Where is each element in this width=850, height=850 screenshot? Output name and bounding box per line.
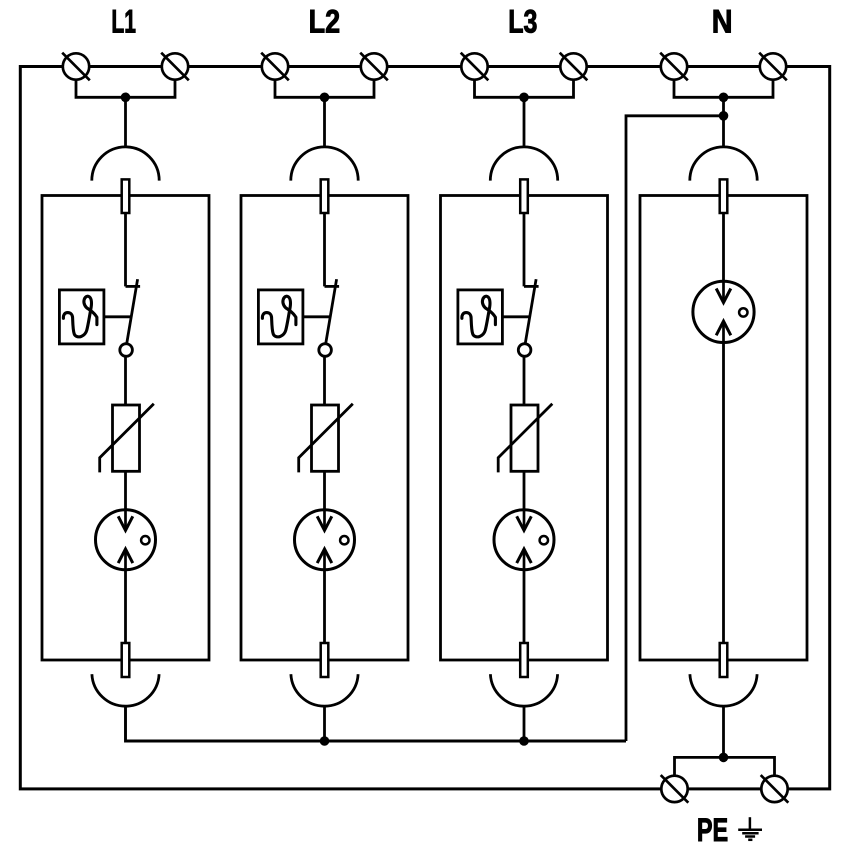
node L2 junction — [320, 93, 330, 103]
node L1 junction — [121, 93, 131, 103]
node N junction — [719, 93, 729, 103]
spark gap N wire in — [722, 281, 725, 303]
terminal L2 terminal left — [261, 53, 289, 81]
terminal blade L1 bottom — [122, 643, 130, 677]
plug-in contact L3 bottom — [490, 674, 557, 706]
svg-text:L3: L3 — [508, 4, 537, 40]
spark gap L2 body — [295, 510, 355, 570]
wire N spark gap out — [722, 321, 725, 343]
plug-in contact L2 bottom — [291, 674, 358, 706]
varistor L1 diagonal — [100, 404, 154, 473]
thermal release box L2 — [258, 290, 303, 344]
svg-text:N: N — [712, 4, 733, 40]
ground symbol bar 2 — [742, 832, 758, 835]
terminal PE right — [761, 775, 789, 803]
plug-in contact L1 top — [92, 147, 159, 181]
wire L2 bottom drop — [323, 706, 326, 742]
spark gap N top electrode — [716, 289, 731, 303]
wire bus riser to N — [626, 116, 724, 741]
ground symbol bar 4 — [748, 839, 752, 842]
node L2 bus junction — [320, 736, 330, 746]
terminal N terminal right — [759, 53, 787, 81]
wire N bottom drop — [722, 706, 725, 757]
wire L3 junction to plug contact — [523, 97, 526, 146]
terminal N terminal left — [660, 53, 688, 81]
disconnector L3 fixed contact — [524, 285, 539, 288]
wire thermal box to blade L1 — [104, 315, 131, 318]
wire L3 terminal bracket — [475, 79, 574, 98]
disconnector L2 pivot contact — [319, 344, 332, 357]
spark gap L1 wire in — [124, 509, 127, 530]
spark gap L3 bottom electrode — [517, 549, 532, 563]
wire L3 blade to disconnector — [523, 213, 526, 286]
spark gap L2 wire in — [323, 509, 326, 530]
wire L3 bottom drop — [523, 706, 526, 742]
wire L3 spark gap out — [523, 549, 526, 570]
wire thermal box to blade L2 — [303, 315, 330, 318]
wire L1 varistor to spark gap — [124, 471, 127, 530]
wire L1 spark gap to bottom blade — [124, 570, 127, 643]
terminal L3 terminal left — [461, 53, 489, 81]
spark gap L3 wire in — [523, 509, 526, 530]
ground symbol bar 1 — [738, 828, 762, 831]
wire L2 junction to plug contact — [323, 97, 326, 146]
disconnector L2 fixed contact — [325, 285, 340, 288]
node N riser junction — [719, 111, 729, 121]
varistor L2 body — [312, 405, 339, 471]
module enclosure L1 — [42, 196, 209, 661]
wire L1 spark gap out — [124, 549, 127, 570]
thermal release box L3 — [458, 290, 503, 344]
wire N spark gap to bottom blade — [722, 343, 725, 644]
terminal L2 terminal right — [360, 53, 388, 81]
wire L1 terminal bracket — [76, 79, 175, 98]
spark gap L2 trigger dot — [340, 536, 348, 544]
node L3 bus junction — [519, 736, 529, 746]
svg-text:PE: PE — [697, 812, 728, 848]
terminal blade N bottom — [720, 643, 728, 677]
spark gap L2 top electrode — [317, 516, 332, 530]
thermal release symbol (theta) L1 — [63, 296, 97, 337]
thermal release symbol (theta) L3 — [462, 296, 496, 337]
terminal blade L2 bottom — [321, 643, 329, 677]
disconnector L3 pivot contact — [518, 344, 531, 357]
disconnector L2 switch blade — [326, 279, 337, 344]
wire thermal box to blade L3 — [502, 315, 529, 318]
plug-in contact L3 top — [490, 147, 557, 181]
spark gap L3 top electrode — [517, 516, 532, 530]
disconnector L1 pivot contact — [120, 344, 133, 357]
node N-PE junction — [719, 753, 729, 763]
wire L3 varistor to spark gap — [523, 471, 526, 530]
terminal blade L2 top — [321, 179, 329, 213]
spark gap N body — [693, 281, 754, 342]
wire L1 bottom drop and equipotential bus — [126, 706, 627, 741]
wire N junction to plug contact — [722, 97, 725, 146]
terminal L1 terminal left — [62, 53, 90, 81]
spark gap L3 trigger dot — [540, 536, 548, 544]
terminal L1 terminal right — [161, 53, 189, 81]
wire L2 spark gap to bottom blade — [323, 570, 326, 643]
node L3 junction — [519, 93, 529, 103]
disconnector L1 fixed contact — [126, 285, 141, 288]
varistor L3 body — [511, 405, 538, 471]
spark gap N trigger dot — [739, 308, 747, 316]
ground symbol bar 3 — [745, 835, 755, 838]
wire N blade to spark gap — [722, 213, 725, 303]
terminal PE left — [661, 775, 689, 803]
wire PE terminal bracket — [675, 757, 775, 777]
spark gap L2 bottom electrode — [317, 549, 332, 563]
module enclosure L3 — [441, 196, 608, 661]
wire L2 blade to disconnector — [323, 213, 326, 286]
thermal release symbol (theta) L2 — [262, 296, 296, 337]
wire L2 varistor to spark gap — [323, 471, 326, 530]
wire L1 blade to disconnector — [124, 213, 127, 286]
varistor L1 body — [113, 405, 140, 471]
spark gap L1 bottom electrode — [118, 549, 133, 563]
disconnector L3 switch blade — [525, 279, 536, 344]
terminal L3 terminal right — [560, 53, 588, 81]
spark gap L1 body — [96, 510, 156, 570]
terminal blade L3 bottom — [520, 643, 528, 677]
plug-in contact L2 top — [291, 147, 358, 181]
wire L2 spark gap out — [323, 549, 326, 570]
varistor L3 diagonal — [498, 404, 552, 473]
wire N terminal bracket — [674, 79, 773, 98]
wire L2 disconnector to varistor — [323, 356, 326, 405]
wire L3 disconnector to varistor — [523, 356, 526, 405]
spark gap L1 trigger dot — [141, 536, 149, 544]
svg-text:L2: L2 — [309, 4, 341, 40]
thermal release box L1 — [59, 290, 104, 344]
wire L1 junction to plug contact — [124, 97, 127, 146]
ground symbol stem — [749, 817, 752, 830]
module enclosure L2 — [241, 196, 408, 661]
module enclosure N — [640, 196, 807, 661]
terminal blade L1 top — [122, 179, 130, 213]
plug-in contact N top — [690, 147, 757, 181]
wire L3 spark gap to bottom blade — [523, 570, 526, 643]
spark gap N bottom electrode — [716, 321, 731, 335]
plug-in contact L1 bottom — [92, 674, 159, 706]
spark gap L3 body — [494, 510, 554, 570]
spark gap L1 top electrode — [118, 516, 133, 530]
terminal blade L3 top — [520, 179, 528, 213]
disconnector L1 switch blade — [127, 279, 138, 344]
varistor L2 diagonal — [299, 404, 353, 473]
plug-in contact N bottom — [690, 674, 757, 706]
svg-text:L1: L1 — [111, 4, 136, 40]
terminal blade N top — [720, 179, 728, 213]
wire L1 disconnector to varistor — [124, 356, 127, 405]
wire L2 terminal bracket — [275, 79, 374, 98]
